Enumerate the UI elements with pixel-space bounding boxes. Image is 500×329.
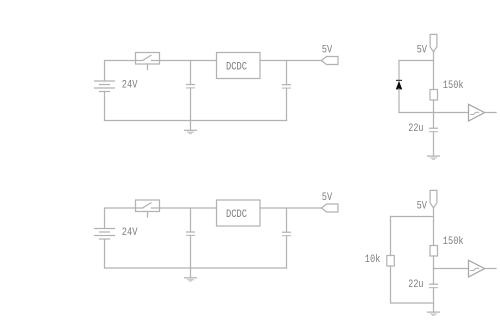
capacitor output (top) [283, 61, 291, 121]
wire switch to DCDC (bottom) [160, 207, 217, 209]
capacitor output (bottom) [283, 208, 291, 268]
capacitor 22u (top-right) [430, 113, 438, 157]
output wire (top-right) [485, 112, 496, 114]
ground (bottom-right) [428, 312, 440, 315]
svg-text:5V: 5V [417, 45, 428, 57]
svg-text:24V: 24V [122, 80, 138, 92]
wire 10k to bottom rail (bottom-right) [391, 266, 434, 303]
wire 5V flag to resistor (bottom-right) [433, 208, 435, 246]
ground (top-right) [428, 156, 440, 159]
capacitor input (bottom) [187, 208, 195, 268]
wire resistor to node (top-right) [433, 100, 435, 113]
battery 24V (bottom) [95, 208, 115, 268]
battery 24V (top) [95, 61, 115, 121]
wire 5V flag to resistor (top-right) [433, 52, 435, 90]
ground (bottom-left) [185, 268, 197, 281]
resistor 10k (bottom-right) [387, 256, 395, 267]
svg-text:5V: 5V [322, 44, 333, 56]
wire DCDC to 5V port (top) [260, 60, 322, 62]
wire DCDC to 5V port (bottom) [260, 207, 322, 209]
node wire to comparator (bottom-right) [434, 268, 469, 270]
5V supply flag (top-right) [430, 34, 437, 52]
svg-text:DCDC: DCDC [226, 209, 247, 221]
wire switch to DCDC (top) [160, 60, 217, 62]
svg-text:DCDC: DCDC [226, 61, 247, 73]
bottom return wire (top) [105, 120, 287, 122]
switch S (bottom, boxed breaker) [136, 200, 160, 217]
svg-text:150k: 150k [443, 236, 464, 248]
DCDC converter box (bottom) [217, 200, 261, 226]
diode clamp (top-right) [396, 80, 402, 112]
wire resistor to node (bottom-right) [433, 256, 435, 269]
switch S (top, boxed breaker) [136, 53, 160, 70]
wire branch to 10k (bottom-right) [391, 217, 434, 256]
capacitor 22u (bottom-right) [430, 269, 438, 313]
node wire to comparator (top-right) [399, 112, 469, 114]
comparator buffer (top-right) [469, 104, 485, 121]
ground (top-left) [185, 121, 197, 134]
resistor 150k (top-right) [430, 90, 438, 101]
svg-text:22u: 22u [408, 279, 423, 291]
capacitor input (top) [187, 61, 195, 121]
svg-text:22u: 22u [408, 123, 423, 135]
svg-text:5V: 5V [322, 192, 333, 204]
svg-text:24V: 24V [122, 227, 138, 239]
5V supply flag (bottom-right) [430, 190, 437, 208]
5V output port (bottom) [322, 204, 339, 212]
DCDC converter box (top) [217, 53, 261, 79]
output wire (bottom-right) [485, 268, 496, 270]
bottom return wire (bottom) [105, 267, 287, 269]
svg-text:150k: 150k [443, 80, 464, 92]
resistor 150k (bottom-right) [430, 246, 438, 257]
svg-text:10k: 10k [365, 254, 381, 266]
svg-text:5V: 5V [417, 201, 428, 213]
wire battery to switch (top) [105, 60, 136, 62]
wire battery to switch (bottom) [105, 207, 136, 209]
comparator buffer (bottom-right) [469, 260, 485, 277]
5V output port (top) [322, 57, 339, 65]
wire branch to diode (top-right) [399, 61, 434, 81]
